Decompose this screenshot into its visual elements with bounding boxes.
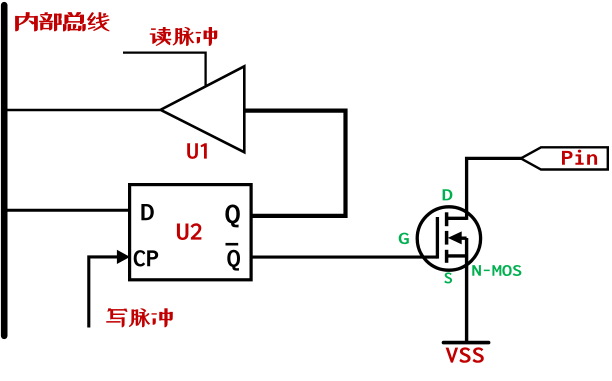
bus: internal bus thick vertical line bbox=[1, 5, 8, 336]
net label Pin text bbox=[562, 150, 597, 165]
wire: bus to U1 output (apex) bbox=[4, 109, 160, 111]
wire: drain lead up to Pin net bbox=[467, 158, 522, 220]
drain pin label D bbox=[443, 189, 453, 200]
power label VSS text bbox=[446, 347, 484, 362]
wire: bus to D input of U2 bbox=[4, 209, 130, 212]
source pin label S bbox=[444, 272, 452, 283]
pin label CP of U2 bbox=[134, 250, 158, 266]
pin label Q-bar of U2 (Q glyph) bbox=[227, 250, 240, 271]
overbar of Q-bar output bbox=[226, 243, 239, 246]
gate bar of MOSFET bbox=[436, 217, 439, 259]
Pin net flag polygon bbox=[521, 147, 608, 169]
wire: U1 input loop from Q output of U2 (thick) bbox=[244, 111, 345, 216]
buffer U1 reference label bbox=[187, 143, 207, 159]
transistor type label N-MOS bbox=[472, 265, 521, 276]
pin label Q of U2 bbox=[225, 204, 239, 227]
body stub from arrow to source line bbox=[460, 236, 467, 239]
flip-flop U2 reference label bbox=[177, 223, 201, 240]
channel bar top segment bbox=[445, 212, 449, 226]
drain stub inside MOSFET bbox=[448, 217, 467, 220]
label 读脉冲 (read pulse) bbox=[150, 27, 171, 45]
label 内部总线 (internal bus) bbox=[16, 13, 38, 31]
source stub inside MOSFET bbox=[448, 254, 467, 257]
ground VSS bar bbox=[444, 341, 489, 345]
gate pin label G bbox=[399, 233, 409, 245]
wire: write pulse line to CP bbox=[89, 257, 118, 328]
transistor Q1 N-MOS body circle bbox=[417, 207, 480, 270]
wire: Q-bar output to MOSFET gate bbox=[252, 256, 437, 259]
arrowhead into CP pin bbox=[117, 250, 130, 264]
channel bar bottom segment bbox=[445, 250, 449, 263]
label 写脉冲 (write pulse) bbox=[107, 309, 127, 327]
channel bar middle segment bbox=[445, 231, 449, 245]
body arrow of MOSFET pointing to channel bbox=[448, 231, 462, 244]
flip-flop U2 box bbox=[130, 185, 252, 280]
op-amp style buffer U1 (tri-state gate triangle) bbox=[161, 66, 245, 152]
wire: source lead down to VSS bbox=[465, 238, 468, 341]
pin label D of U2 bbox=[141, 204, 153, 220]
wire: read-pulse enable line into U1 bbox=[123, 53, 206, 87]
